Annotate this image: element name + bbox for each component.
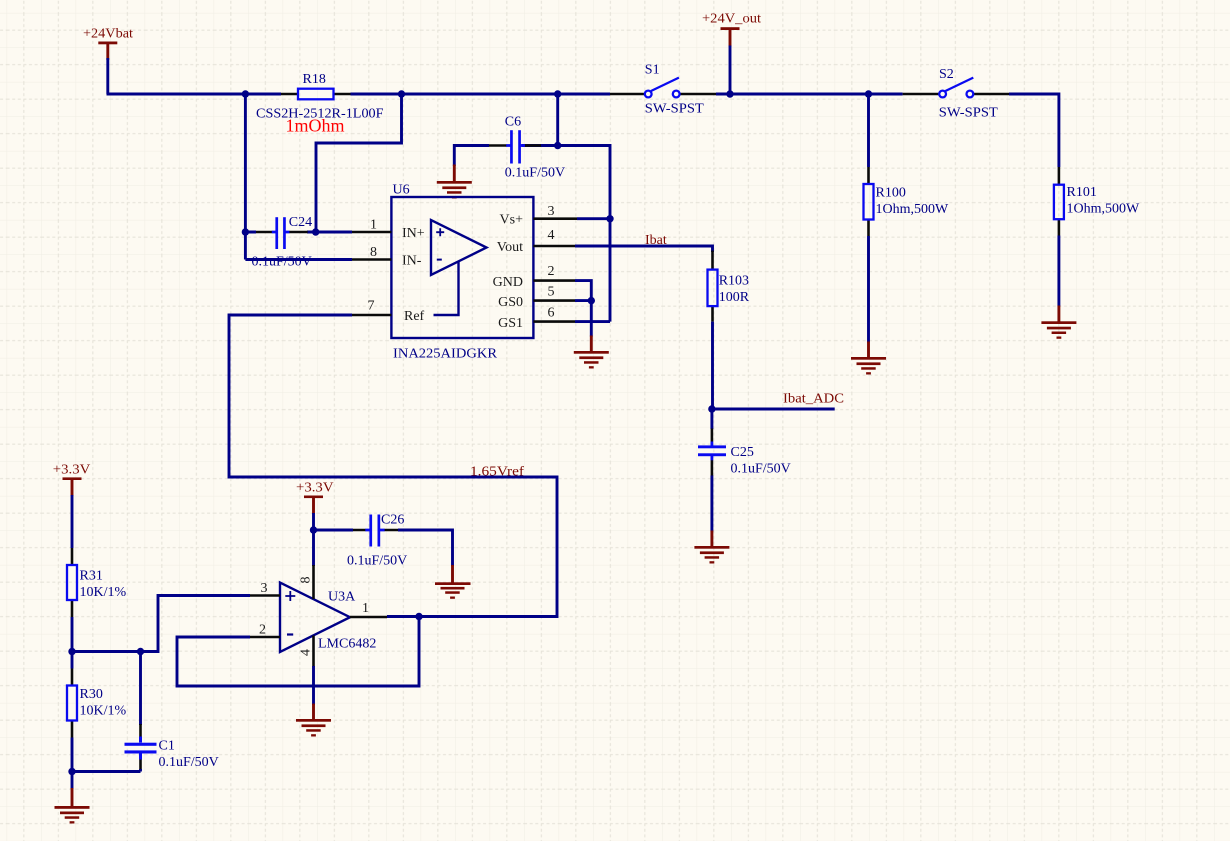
capacitor C6 [489,115,565,181]
svg-text:C24: C24 [289,215,312,230]
capacitor C1 [125,724,219,770]
U6 pin 7 [352,299,425,325]
wire S2 to R101 [1009,94,1059,167]
resistor R100 [864,167,950,236]
resistor R101 [1054,167,1140,236]
svg-text:C26: C26 [381,513,404,528]
node output [415,613,422,620]
switch S2 [903,67,1009,121]
wire rail to S2 [869,93,903,96]
svg-text:1: 1 [362,601,369,616]
node rail-left [242,90,249,97]
svg-text:+24V_out: +24V_out [702,12,761,27]
capacitor C24 [252,215,313,270]
node C24 left [242,228,249,235]
node C1 top [137,648,144,655]
switch S1 [610,63,716,117]
svg-text:Ref: Ref [404,309,425,324]
svg-text:1mOhm: 1mOhm [286,116,345,136]
wire +24Vbat stem [106,58,109,94]
svg-text:4: 4 [299,649,314,656]
svg-text:R30: R30 [80,687,103,702]
svg-text:0.1uF/50V: 0.1uF/50V [505,166,565,181]
svg-text:Vout: Vout [497,240,523,255]
svg-text:6: 6 [548,306,555,321]
U3A pin 8 [299,565,314,599]
node +3.3V op [310,526,317,533]
wire C6 right [522,146,611,322]
node bottom [68,768,75,775]
resistor R103 [708,251,750,322]
U3A pin 3 [250,581,280,596]
svg-text:3: 3 [548,204,555,219]
svg-text:U3A: U3A [328,590,356,605]
node divider [68,648,75,655]
wire bottom node to ground [71,772,74,790]
ground U6 [574,336,609,369]
power +24Vbat [83,27,133,61]
wire Ibat (U6 pin4 to R103) [575,246,713,252]
U6 pin 1 [352,218,425,242]
wire node to C26 [314,529,354,532]
wire bottom to C1 [72,770,141,773]
ground U3A [296,704,331,737]
node pin5 [588,297,595,304]
svg-text:1.65Vref: 1.65Vref [470,465,524,480]
svg-text:LMC6482: LMC6482 [318,637,376,652]
svg-text:100R: 100R [719,290,750,305]
svg-text:8: 8 [299,577,314,584]
node C24 right [312,228,319,235]
power +3.3V (op-amp) [296,481,334,515]
svg-text:+3.3V: +3.3V [53,463,91,478]
node Ibat_ADC [708,405,715,412]
wire C1 bottom [139,769,142,772]
U6 pin 6 [498,306,575,331]
capacitor C26 [347,513,407,569]
svg-text:INA225AIDGKR: INA225AIDGKR [393,347,498,362]
ground R100 [851,342,886,375]
svg-text:10K/1%: 10K/1% [80,585,127,600]
svg-text:0.1uF/50V: 0.1uF/50V [731,462,791,477]
ground divider [55,788,90,824]
U3A pin 4 [299,636,314,668]
svg-text:SW-SPST: SW-SPST [939,106,998,121]
wire IN+ branch [307,94,402,232]
wire C6 to rail [556,94,559,146]
wire +3.3V to R31 [71,495,74,548]
svg-text:+24Vbat: +24Vbat [83,27,133,42]
wire R100 to ground [867,236,870,343]
power +24V_out [702,12,761,47]
svg-text:1Ohm,500W: 1Ohm,500W [1067,202,1141,217]
op-amp U3A [280,583,376,653]
svg-text:GND: GND [493,275,523,290]
wire U6 pin5 [575,299,591,302]
svg-text:4: 4 [548,228,555,243]
wire divider node to op-amp pin3 [72,596,250,652]
wire R101 to ground [1057,236,1060,307]
node rail-R18-right [398,90,405,97]
svg-text:S2: S2 [939,67,954,82]
svg-text:IN+: IN+ [402,226,425,241]
U3A pin 1 output [350,601,387,617]
svg-text:IN-: IN- [402,253,422,268]
wire C25 to ground [710,476,713,532]
U6 pin 2 [493,264,575,290]
svg-text:0.1uF/50V: 0.1uF/50V [159,755,219,770]
wire feedback loop [177,617,419,687]
wire S1 to +24V_out node [716,93,869,96]
wire R103 to node [711,322,714,409]
U6 pin 3 [500,204,577,228]
svg-text:SW-SPST: SW-SPST [645,101,704,116]
op-amp U6 INA225 [391,183,533,362]
svg-text:R31: R31 [80,569,103,584]
svg-text:0.1uF/50V: 0.1uF/50V [252,255,312,270]
wire rail R18 to S1 [351,93,611,96]
svg-text:GS1: GS1 [498,316,523,331]
svg-text:3: 3 [261,581,268,596]
wire Ibat_ADC [712,408,835,411]
U6 pin 4 [497,228,575,255]
wire IN- branch [245,94,352,260]
wire C6 left to ground [454,146,489,167]
ground C25 [694,531,729,564]
node +24V_out [726,90,733,97]
svg-text:2: 2 [259,623,266,638]
wire node to C25 [710,409,713,429]
capacitor C25 [698,429,791,477]
svg-text:Ibat: Ibat [645,233,667,248]
wire C1 top [139,652,142,726]
svg-text:R100: R100 [876,186,906,201]
wire pin8 supply [312,530,315,566]
svg-text:GS0: GS0 [498,295,523,310]
svg-text:7: 7 [368,299,375,314]
U6 pin 8 [352,245,422,268]
svg-text:C1: C1 [159,739,175,754]
resistor R31 [67,548,127,617]
svg-text:C25: C25 [731,445,754,460]
U3A - mark [287,633,293,635]
wire top rail left [107,93,282,96]
wire pin4 to ground [312,666,315,705]
U3A + mark [285,591,295,601]
node rail-C6 [554,90,561,97]
svg-text:C6: C6 [505,115,521,130]
wire U6 pin2 to ground [575,281,591,337]
node pin3 [606,215,613,222]
wire +24V_out stem [729,46,732,95]
svg-text:2: 2 [548,264,555,279]
svg-text:Ibat_ADC: Ibat_ADC [783,392,844,407]
svg-text:0.1uF/50V: 0.1uF/50V [347,554,407,569]
svg-text:R101: R101 [1067,185,1097,200]
wire C26 to ground [398,530,453,566]
U3A pin 2 [250,623,280,638]
wire output to node [387,615,419,618]
svg-text:10K/1%: 10K/1% [80,704,127,719]
svg-text:U6: U6 [393,183,410,198]
wire R30 [71,652,74,772]
U6 internal triangle [431,220,487,315]
svg-text:1: 1 [370,218,377,233]
svg-text:Vs+: Vs+ [500,213,524,228]
wire R100 top [867,94,870,167]
wire +3.3V op stem [312,513,315,530]
node R100 top [865,90,872,97]
node C6 right [554,142,561,149]
svg-text:5: 5 [548,285,555,300]
U6 pin 5 [498,285,575,310]
wire U6 pin3 to Vs+ rail [577,217,610,220]
wire Ref net (pin7 to 1.65Vref to op-amp output) [229,315,557,617]
resistor R30 [67,669,127,738]
power +3.3V (divider) [53,463,91,497]
resistor R18 [256,72,384,136]
svg-text:1Ohm,500W: 1Ohm,500W [876,202,950,217]
ground R101 [1041,306,1076,339]
svg-text:+3.3V: +3.3V [296,481,334,496]
wire R31 to node [71,617,74,652]
svg-text:S1: S1 [645,63,660,78]
svg-text:8: 8 [370,245,377,260]
svg-text:R103: R103 [719,274,749,289]
svg-text:R18: R18 [303,72,326,87]
ground C26 [435,565,471,599]
ground C6 [437,165,472,199]
